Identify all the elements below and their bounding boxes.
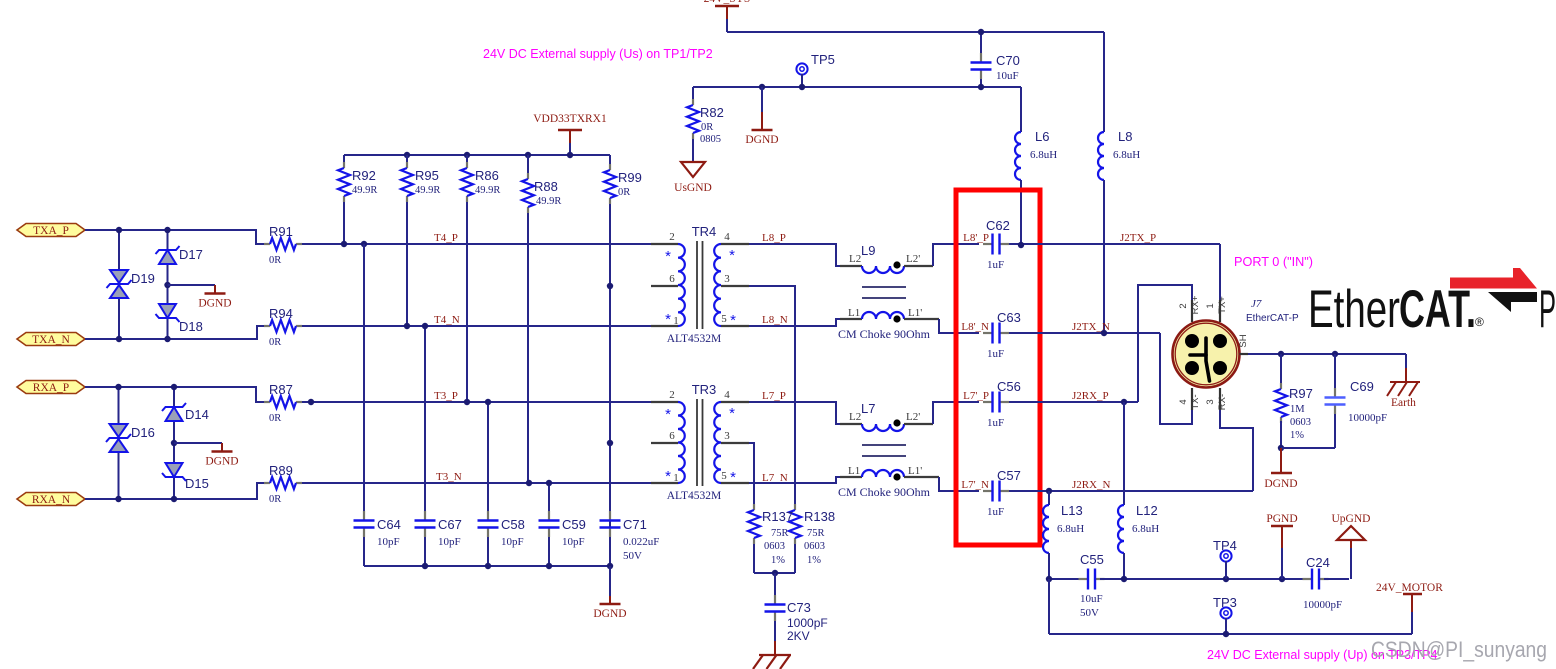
svg-text:*: * [665, 311, 671, 328]
svg-text:*: * [665, 248, 671, 265]
svg-text:UpGND: UpGND [1332, 513, 1371, 525]
svg-text:R138: R138 [804, 509, 835, 524]
svg-text:C55: C55 [1080, 552, 1104, 567]
svg-text:6.8uH: 6.8uH [1132, 523, 1159, 535]
svg-text:10pF: 10pF [377, 536, 400, 548]
svg-text:C63: C63 [997, 310, 1021, 325]
svg-text:L7: L7 [861, 401, 875, 416]
svg-text:24V_SYS: 24V_SYS [704, 0, 751, 5]
svg-text:0R: 0R [269, 413, 281, 424]
svg-text:10pF: 10pF [501, 536, 524, 548]
svg-text:2KV: 2KV [787, 629, 810, 643]
svg-text:50V: 50V [623, 550, 642, 562]
svg-text:®: ® [1475, 315, 1484, 329]
svg-text:L8: L8 [1118, 129, 1132, 144]
svg-text:L7_P: L7_P [762, 390, 786, 402]
svg-text:L2': L2' [906, 253, 920, 265]
svg-text:PGND: PGND [1266, 513, 1297, 525]
svg-text:1: 1 [673, 315, 679, 327]
svg-text:*: * [729, 247, 735, 264]
svg-text:C59: C59 [562, 517, 586, 532]
svg-text:L8'_N: L8'_N [961, 321, 989, 333]
svg-text:0R: 0R [618, 187, 630, 198]
svg-text:1uF: 1uF [987, 259, 1004, 271]
svg-text:1%: 1% [807, 555, 821, 566]
svg-text:75R: 75R [771, 528, 789, 539]
svg-text:2: 2 [669, 389, 675, 401]
svg-text:R89: R89 [269, 463, 293, 478]
svg-text:J2RX_N: J2RX_N [1072, 479, 1111, 491]
svg-text:PORT 0 ("IN"): PORT 0 ("IN") [1234, 255, 1313, 269]
svg-text:UsGND: UsGND [674, 182, 712, 194]
svg-text:DGND: DGND [593, 608, 626, 620]
svg-text:C56: C56 [997, 379, 1021, 394]
svg-text:RXA_P: RXA_P [33, 382, 69, 394]
svg-text:*: * [730, 469, 736, 486]
svg-text:CAT.: CAT. [1399, 280, 1476, 339]
svg-text:3: 3 [724, 430, 730, 442]
svg-text:C62: C62 [986, 218, 1010, 233]
svg-text:TP3: TP3 [1213, 595, 1237, 610]
svg-text:D19: D19 [131, 271, 155, 286]
svg-text:J2TX_P: J2TX_P [1120, 232, 1156, 244]
svg-text:C64: C64 [377, 517, 401, 532]
svg-text:75R: 75R [807, 528, 825, 539]
svg-text:4: 4 [724, 389, 730, 401]
svg-text:Earth: Earth [1391, 397, 1416, 409]
svg-text:1uF: 1uF [987, 506, 1004, 518]
svg-text:10pF: 10pF [438, 536, 461, 548]
svg-text:10pF: 10pF [562, 536, 585, 548]
svg-text:6: 6 [669, 273, 675, 285]
svg-text:EtherCAT-P: EtherCAT-P [1246, 313, 1299, 324]
svg-text:L1': L1' [908, 465, 922, 477]
svg-text:C67: C67 [438, 517, 462, 532]
svg-text:49.9R: 49.9R [415, 185, 440, 196]
svg-text:D15: D15 [185, 476, 209, 491]
svg-text:TX-: TX- [1190, 394, 1201, 409]
svg-text:R86: R86 [475, 168, 499, 183]
svg-text:DGND: DGND [745, 134, 778, 146]
svg-text:1: 1 [1205, 303, 1216, 308]
svg-text:CSDN@PI_sunyang: CSDN@PI_sunyang [1371, 637, 1547, 662]
svg-text:*: * [665, 468, 671, 485]
svg-text:24V DC External supply (Us) on: 24V DC External supply (Us) on TP1/TP2 [483, 47, 713, 61]
svg-text:1uF: 1uF [987, 348, 1004, 360]
svg-text:6: 6 [669, 430, 675, 442]
svg-text:0603: 0603 [804, 541, 825, 552]
svg-text:R82: R82 [700, 105, 724, 120]
svg-text:1%: 1% [771, 555, 785, 566]
svg-text:C58: C58 [501, 517, 525, 532]
svg-text:DGND: DGND [198, 298, 231, 310]
svg-text:49.9R: 49.9R [352, 185, 377, 196]
svg-text:10uF: 10uF [1080, 593, 1103, 605]
svg-text:6.8uH: 6.8uH [1057, 523, 1084, 535]
svg-text:ALT4532M: ALT4532M [667, 490, 722, 502]
svg-text:0R: 0R [701, 122, 713, 133]
svg-text:T4_N: T4_N [434, 314, 460, 326]
svg-text:5: 5 [721, 470, 727, 482]
svg-text:1M: 1M [1290, 404, 1305, 415]
svg-text:R94: R94 [269, 306, 293, 321]
svg-text:0603: 0603 [1290, 417, 1311, 428]
svg-text:T3_N: T3_N [436, 471, 462, 483]
svg-text:R87: R87 [269, 382, 293, 397]
svg-text:Ether: Ether [1308, 280, 1400, 339]
svg-text:L1: L1 [848, 307, 860, 319]
svg-text:R97: R97 [1289, 386, 1313, 401]
svg-text:C57: C57 [997, 468, 1021, 483]
svg-text:P: P [1539, 280, 1556, 339]
svg-text:0805: 0805 [700, 134, 721, 145]
svg-text:R88: R88 [534, 179, 558, 194]
svg-text:DGND: DGND [1264, 478, 1297, 490]
svg-text:5: 5 [721, 313, 727, 325]
svg-text:49.9R: 49.9R [536, 196, 561, 207]
svg-text:L8_P: L8_P [762, 232, 786, 244]
svg-text:0R: 0R [269, 255, 281, 266]
svg-text:2: 2 [1178, 303, 1189, 308]
svg-text:D16: D16 [131, 425, 155, 440]
svg-text:49.9R: 49.9R [475, 185, 500, 196]
svg-text:RX+: RX+ [1190, 295, 1201, 314]
svg-text:ALT4532M: ALT4532M [667, 333, 722, 345]
svg-text:R92: R92 [352, 168, 376, 183]
svg-text:L2: L2 [849, 411, 861, 423]
svg-text:L7'_P: L7'_P [963, 390, 989, 402]
svg-text:L12: L12 [1136, 503, 1158, 518]
svg-text:D18: D18 [179, 319, 203, 334]
svg-text:TR4: TR4 [692, 224, 717, 239]
svg-text:1uF: 1uF [987, 417, 1004, 429]
svg-text:TR3: TR3 [692, 382, 717, 397]
svg-text:24V_MOTOR: 24V_MOTOR [1376, 582, 1443, 594]
svg-text:10000pF: 10000pF [1348, 412, 1387, 424]
svg-text:3: 3 [1205, 399, 1216, 404]
svg-text:VDD33TXRX1: VDD33TXRX1 [533, 113, 607, 125]
svg-text:*: * [730, 312, 736, 329]
svg-text:0.022uF: 0.022uF [623, 536, 659, 548]
svg-text:RXA_N: RXA_N [32, 494, 71, 506]
svg-text:2: 2 [669, 231, 675, 243]
svg-text:L6: L6 [1035, 129, 1049, 144]
svg-text:1%: 1% [1290, 430, 1304, 441]
svg-text:D14: D14 [185, 407, 209, 422]
svg-text:R137: R137 [762, 509, 793, 524]
svg-text:C24: C24 [1306, 555, 1330, 570]
svg-text:R95: R95 [415, 168, 439, 183]
svg-text:C73: C73 [787, 600, 811, 615]
svg-text:CM Choke 90Ohm: CM Choke 90Ohm [838, 327, 931, 341]
svg-text:3: 3 [724, 273, 730, 285]
svg-text:CM Choke 90Ohm: CM Choke 90Ohm [838, 485, 931, 499]
svg-text:1: 1 [673, 472, 679, 484]
svg-text:TX+: TX+ [1217, 296, 1228, 314]
svg-text:C69: C69 [1350, 379, 1374, 394]
svg-text:4: 4 [724, 231, 730, 243]
svg-text:0R: 0R [269, 337, 281, 348]
svg-text:RX-: RX- [1217, 394, 1228, 410]
svg-text:*: * [665, 406, 671, 423]
svg-text:TP5: TP5 [811, 52, 835, 67]
svg-text:10000pF: 10000pF [1303, 599, 1342, 611]
svg-text:D17: D17 [179, 247, 203, 262]
svg-text:10uF: 10uF [996, 70, 1019, 82]
svg-text:1000pF: 1000pF [787, 616, 828, 630]
svg-text:J2RX_P: J2RX_P [1072, 390, 1109, 402]
svg-text:50V: 50V [1080, 607, 1099, 619]
svg-text:TP4: TP4 [1213, 538, 1237, 553]
svg-text:L1: L1 [848, 465, 860, 477]
svg-text:R99: R99 [618, 170, 642, 185]
svg-text:T4_P: T4_P [434, 232, 458, 244]
svg-text:C70: C70 [996, 53, 1020, 68]
svg-text:R91: R91 [269, 224, 293, 239]
svg-text:6.8uH: 6.8uH [1113, 149, 1140, 161]
svg-text:0R: 0R [269, 494, 281, 505]
svg-text:C71: C71 [623, 517, 647, 532]
svg-text:L13: L13 [1061, 503, 1083, 518]
svg-text:J7: J7 [1251, 298, 1262, 310]
svg-text:L2: L2 [849, 253, 861, 265]
svg-text:L1': L1' [908, 307, 922, 319]
svg-text:0603: 0603 [764, 541, 785, 552]
svg-text:L7'_N: L7'_N [961, 479, 989, 491]
svg-text:SH: SH [1238, 334, 1249, 347]
svg-text:*: * [729, 405, 735, 422]
svg-text:DGND: DGND [205, 456, 238, 468]
svg-text:TXA_N: TXA_N [32, 334, 70, 346]
svg-text:L9: L9 [861, 243, 875, 258]
svg-text:L8_N: L8_N [762, 314, 788, 326]
svg-text:4: 4 [1178, 399, 1189, 404]
svg-text:TXA_P: TXA_P [33, 225, 69, 237]
svg-text:L2': L2' [906, 411, 920, 423]
svg-text:6.8uH: 6.8uH [1030, 149, 1057, 161]
svg-text:L8'_P: L8'_P [963, 232, 989, 244]
svg-text:T3_P: T3_P [434, 390, 458, 402]
